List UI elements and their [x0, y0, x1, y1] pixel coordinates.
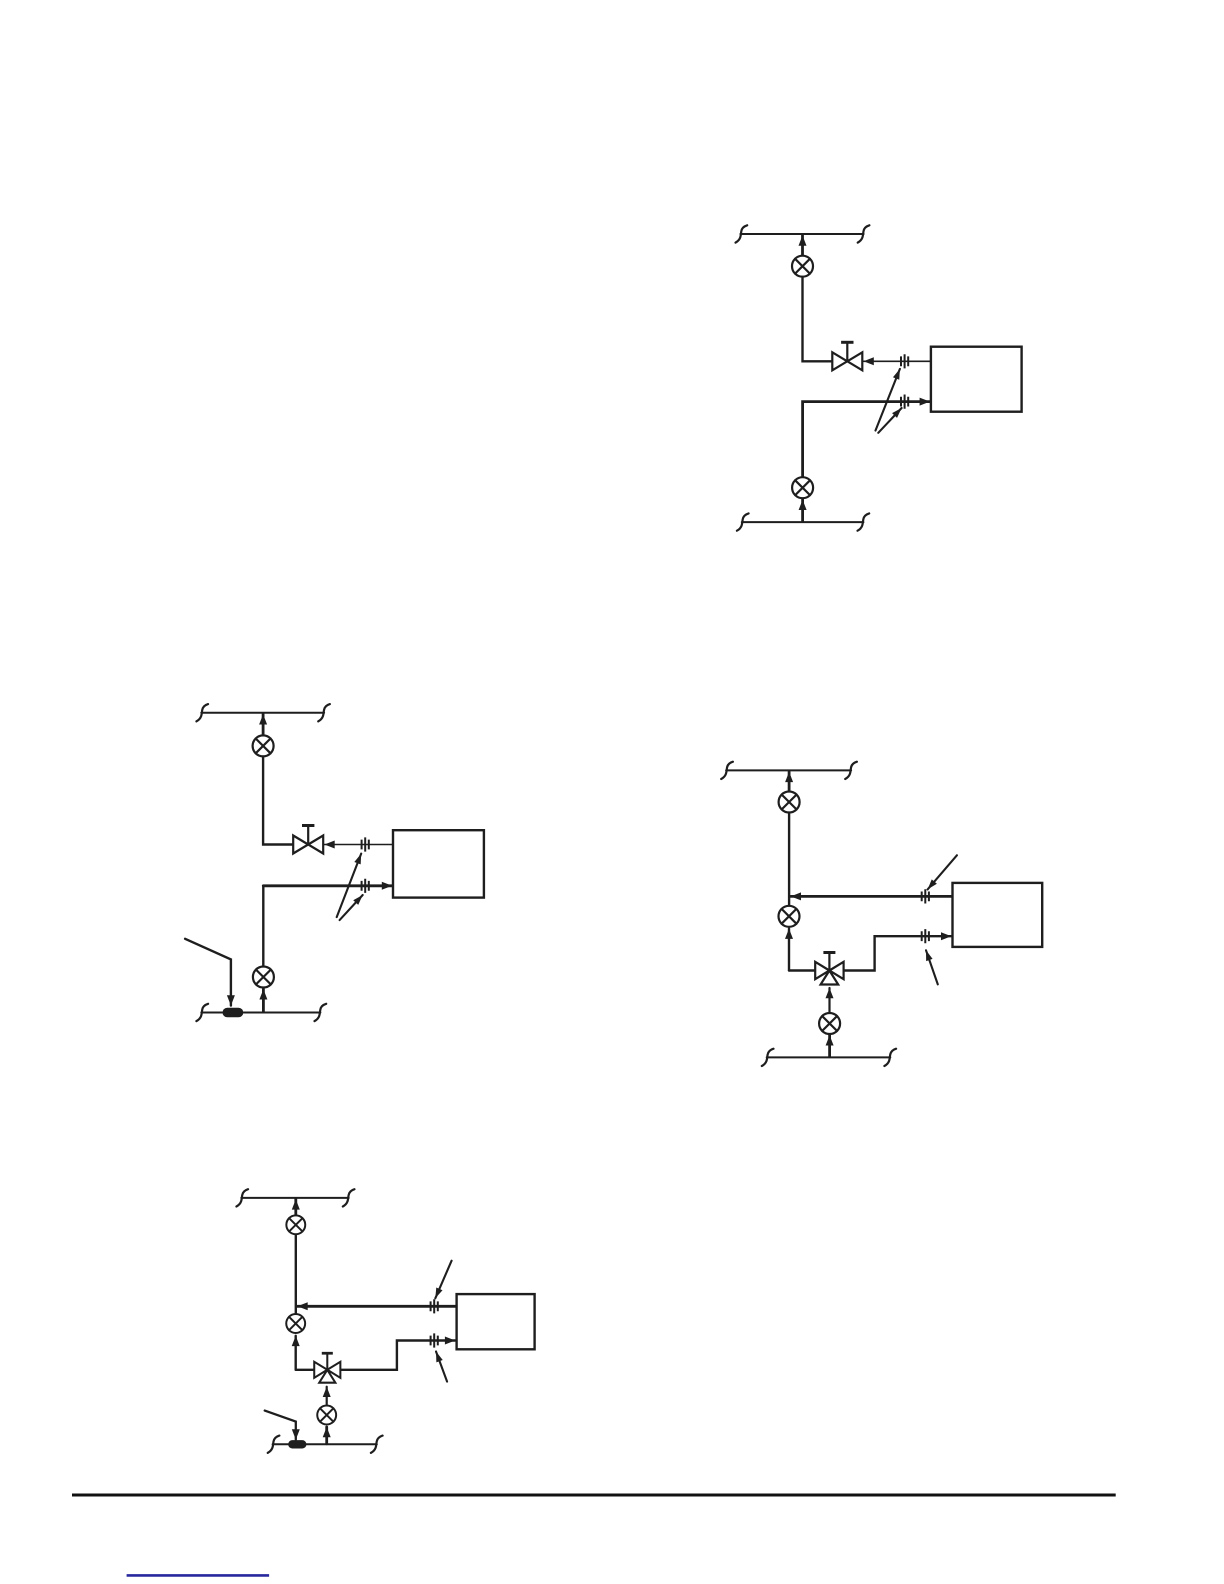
coil return pipe D2 with arrow into coil [263, 884, 392, 887]
supply main pipe D3 [726, 769, 851, 771]
pipe break right D2 supply [318, 704, 330, 721]
pipe break left D3 supply [721, 762, 733, 779]
shutoff valve (circle-X) D1 bottom [792, 477, 813, 498]
return main pipe D1 [742, 521, 864, 523]
callout arrow to lower union D3 [926, 950, 938, 984]
shutoff valve (circle-X) D3 middle [779, 906, 800, 927]
sensor well D4 [288, 1440, 306, 1448]
callout arrow to upper union D4 [435, 1261, 451, 1299]
union D3 lower [922, 929, 929, 943]
shutoff valve (circle-X) D3 bottom [819, 1013, 840, 1034]
callout arrow to upper union D1 [876, 369, 900, 431]
footer rule [72, 1494, 1116, 1497]
bypass arrow into three-way valve D3 [828, 988, 830, 1013]
flow arrow into supply main D4 [294, 1199, 297, 1214]
three-way control valve D3 [815, 953, 843, 985]
riser pipe D3 [788, 813, 790, 906]
pipe to three-way valve D4 [296, 1369, 314, 1371]
return main pipe D4 [273, 1443, 377, 1445]
sensor well D2 [223, 1008, 244, 1018]
union D3 upper [922, 889, 929, 903]
pipe break right D4 supply [343, 1189, 355, 1206]
union D1 upper [901, 354, 908, 368]
riser pipe D4 [295, 1236, 297, 1314]
two-way control valve D2 [293, 826, 323, 854]
flow arrow into supply main D1 [801, 235, 804, 255]
shutoff valve (circle-X) D2 top [253, 735, 274, 756]
pipe break right D3 supply [845, 762, 857, 779]
coil supply pipe D3 with arrow into coil [844, 936, 952, 970]
return riser D2 [262, 886, 264, 967]
bypass arrow into three-way valve D4 [326, 1387, 328, 1405]
riser pipe D1 [803, 277, 833, 361]
coil return pipe D3 with arrow into riser [791, 895, 952, 898]
three-way control valve D4 [314, 1353, 340, 1382]
flow arrow into bottom shutoff D2 [262, 989, 265, 1011]
flow arrow into bottom shutoff D4 [325, 1427, 328, 1444]
pipe break left D2 supply [196, 704, 208, 721]
shutoff valve (circle-X) D4 top [286, 1215, 305, 1234]
callout arrow to upper union D3 [928, 855, 957, 889]
riser pipe D2 [263, 757, 293, 845]
coil return pipe D4 with arrow into riser [297, 1305, 456, 1308]
pipe break right D1 supply [858, 225, 870, 242]
callout arrow to lower union D4 [436, 1352, 447, 1382]
union D4 upper [431, 1299, 438, 1313]
shutoff valve (circle-X) D2 bottom [253, 967, 274, 988]
union D1 lower [901, 395, 908, 409]
return main pipe D2 [201, 1012, 320, 1014]
flow arrow into bottom shutoff D3 [828, 1035, 831, 1056]
coil box D4 [457, 1294, 535, 1349]
coil box D3 [953, 883, 1043, 947]
shutoff valve (circle-X) D4 bottom [317, 1406, 336, 1425]
supply main pipe D2 [201, 712, 324, 714]
shutoff valve (circle-X) D3 top [779, 792, 800, 813]
union D4 lower [431, 1333, 438, 1347]
pipe break left D4 supply [236, 1189, 248, 1206]
supply main pipe D1 [740, 233, 863, 235]
pipe break right D1 return [858, 513, 870, 530]
coil return pipe D1 with arrow into coil [803, 402, 930, 477]
coil supply line with arrow into valve D2 [324, 844, 393, 846]
coil box D1 [931, 347, 1022, 412]
pipe break right D3 return [884, 1049, 896, 1066]
callout arrow to lower union D2 [340, 895, 363, 920]
union D2 upper [362, 837, 369, 851]
shutoff valve (circle-X) D4 middle [286, 1314, 305, 1333]
pipe break left D2 return [196, 1004, 208, 1021]
callout arrow to sensor well D4 [265, 1411, 296, 1440]
flow arrow into middle shutoff D4 [295, 1336, 297, 1370]
callout arrow to lower union D1 [878, 408, 901, 433]
two-way control valve D1 [832, 342, 862, 370]
flow arrow into middle shutoff D3 [788, 929, 790, 971]
callout arrow to upper union D2 [337, 854, 362, 918]
flow arrow into supply main D2 [262, 714, 265, 735]
union D2 lower [362, 879, 369, 893]
coil supply pipe D4 with arrow into coil [341, 1341, 455, 1370]
pipe break right D2 return [315, 1004, 327, 1021]
pipe break left D4 return [268, 1436, 280, 1453]
return main pipe D3 [767, 1056, 891, 1058]
supply main pipe D4 [241, 1197, 348, 1199]
coil box D2 [393, 830, 484, 897]
pipe to three-way valve D3 [789, 969, 815, 971]
flow arrow into supply main D3 [788, 772, 791, 792]
flow arrow into bottom shutoff D1 [801, 500, 804, 521]
pipe break left D3 return [762, 1049, 774, 1066]
callout arrow to sensor well D2 [185, 939, 231, 1006]
pipe break left D1 supply [736, 225, 748, 242]
shutoff valve (circle-X) D1 top [792, 256, 813, 277]
footer link underline [127, 1574, 270, 1577]
coil supply line with arrow into valve D1 [864, 360, 931, 362]
pipe break left D1 return [737, 513, 749, 530]
pipe break right D4 return [371, 1436, 383, 1453]
